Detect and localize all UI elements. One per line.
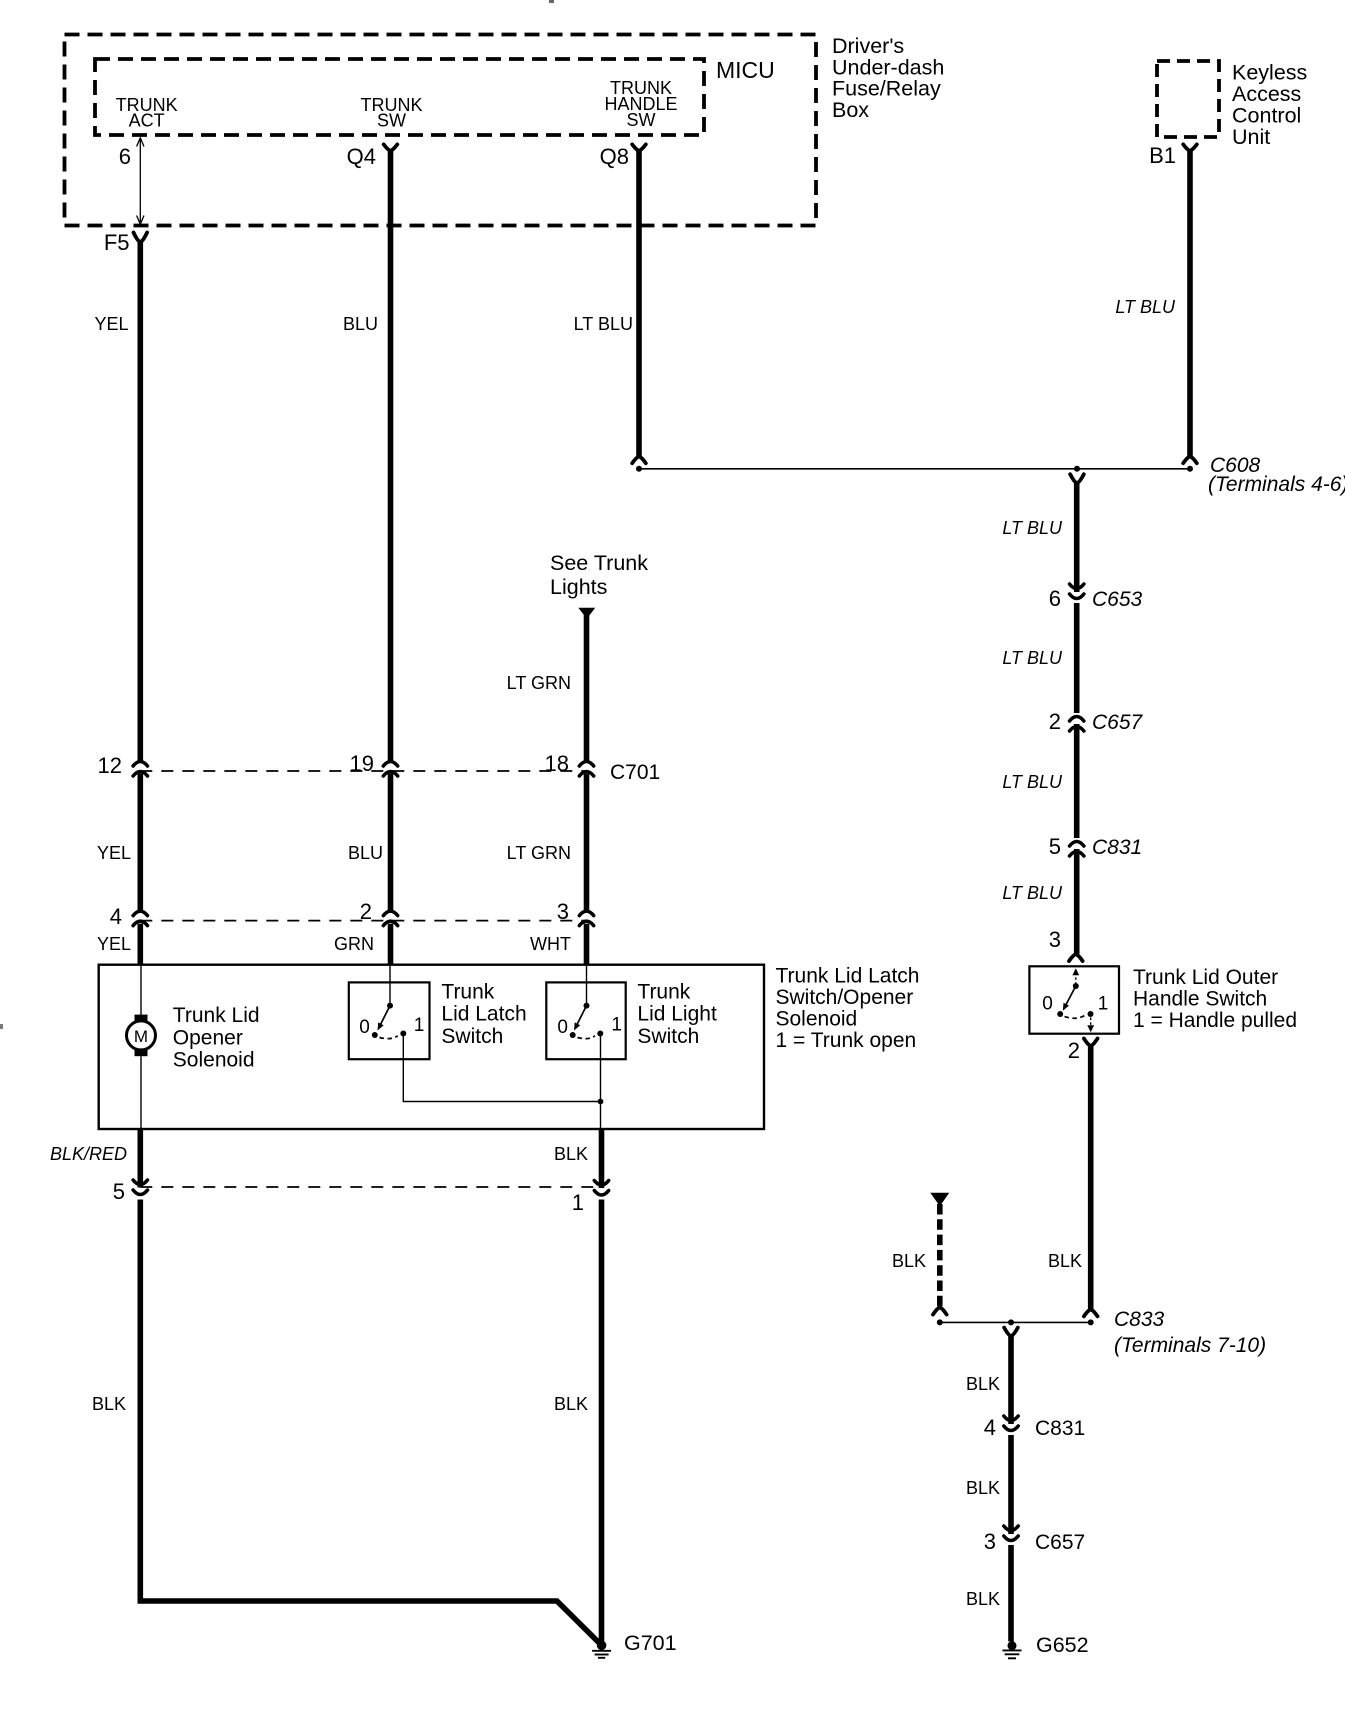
wire LT BLU from B1 xyxy=(1187,151,1193,457)
label Trunk Lid Latch Switch/Opener Solenoid xyxy=(776,965,920,1053)
svg-text:1: 1 xyxy=(572,1190,584,1215)
svg-text:0: 0 xyxy=(557,1017,568,1038)
svg-text:G652: G652 xyxy=(1036,1633,1089,1657)
svg-text:LT BLU: LT BLU xyxy=(1002,648,1063,668)
svg-text:GRN: GRN xyxy=(334,934,374,954)
light switch contact 0 xyxy=(570,1032,576,1038)
svg-text:5: 5 xyxy=(1049,834,1061,859)
svg-text:Switch: Switch xyxy=(441,1025,503,1048)
svg-text:C831: C831 xyxy=(1035,1417,1085,1440)
svg-text:Lights: Lights xyxy=(550,575,607,599)
inline connector pin 1 xyxy=(594,1181,608,1196)
svg-text:YEL: YEL xyxy=(97,843,131,863)
junction C833 left xyxy=(937,1319,943,1325)
scan mark top center xyxy=(549,0,554,3)
handle switch contact 0 xyxy=(1057,1011,1063,1017)
latch switch dashed throw xyxy=(380,1036,398,1039)
Driver's Under-dash Fuse/Relay Box (outer dashed box) xyxy=(65,35,817,226)
svg-text:YEL: YEL xyxy=(97,934,131,954)
inline connector pin 4 xyxy=(133,911,147,926)
wire LT BLU C608 to C653 xyxy=(1074,483,1080,592)
ground G652 xyxy=(1003,1641,1022,1658)
wire LT BLU C653 to C657 xyxy=(1074,603,1080,713)
svg-text:4: 4 xyxy=(110,904,122,929)
svg-text:Trunk: Trunk xyxy=(637,980,690,1003)
svg-text:3: 3 xyxy=(557,899,569,924)
connector dashed line row 5/1 xyxy=(140,1186,601,1188)
svg-text:BLK: BLK xyxy=(554,1144,588,1164)
connector fork Q8 wire end at C608 xyxy=(632,457,646,464)
connector fork C833 branch xyxy=(1004,1328,1018,1336)
inline connector C701 pin 12 xyxy=(133,762,147,777)
svg-text:6: 6 xyxy=(1049,586,1061,611)
connector C701 dashed line xyxy=(140,770,586,772)
inline connector C657 pin 3 xyxy=(1004,1526,1018,1541)
svg-text:MICU: MICU xyxy=(716,57,775,83)
svg-text:YEL: YEL xyxy=(94,314,128,334)
wire LT GRN below C701 xyxy=(584,774,590,913)
svg-text:Q4: Q4 xyxy=(347,144,376,169)
wire BLK below light switch xyxy=(599,1129,605,1188)
latch switch contact 0 xyxy=(372,1032,378,1038)
label Driver's Under-dash Fuse/Relay Box xyxy=(832,34,944,122)
wire BLK C831 to C657 xyxy=(1008,1435,1014,1534)
svg-text:Trunk Lid Latch: Trunk Lid Latch xyxy=(776,965,920,988)
Trunk Lid Outer Handle Switch box xyxy=(1029,966,1119,1033)
MICU inner dashed box xyxy=(95,59,704,135)
label Trunk Lid Light Switch xyxy=(637,980,717,1048)
wire BLK handle switch to C833 xyxy=(1088,1046,1094,1310)
svg-text:BLK: BLK xyxy=(966,1374,1000,1394)
svg-text:Opener: Opener xyxy=(173,1026,243,1049)
inline connector pin 5 xyxy=(133,1180,147,1195)
connector fork B1 wire end at C608 xyxy=(1183,457,1197,464)
handle switch dashed throw to contact 1 xyxy=(1065,1016,1085,1019)
svg-text:2: 2 xyxy=(360,899,372,924)
junction at C608 left xyxy=(636,466,642,472)
handle switch moving arm xyxy=(1065,986,1076,1008)
latch switch contact 1 xyxy=(400,1031,406,1037)
connector fork stub at C833 xyxy=(933,1308,947,1315)
svg-text:0: 0 xyxy=(1042,994,1053,1015)
label See Trunk Lights xyxy=(550,551,648,599)
Trunk Lid Latch Switch box xyxy=(349,982,430,1059)
Trunk Lid Latch Switch / Opener Solenoid component box xyxy=(99,965,764,1129)
ground G701 xyxy=(592,1641,611,1658)
svg-text:Lid Latch: Lid Latch xyxy=(441,1003,526,1026)
svg-text:3: 3 xyxy=(1049,927,1061,952)
junction C833 right xyxy=(1088,1319,1094,1325)
svg-text:C831: C831 xyxy=(1092,836,1142,859)
svg-text:Box: Box xyxy=(832,98,869,122)
svg-text:Switch/Opener: Switch/Opener xyxy=(776,986,914,1009)
wire BLK dashed stub xyxy=(937,1204,943,1308)
svg-text:12: 12 xyxy=(98,753,122,778)
svg-text:LT GRN: LT GRN xyxy=(507,673,571,693)
label Trunk Lid Latch Switch xyxy=(441,980,526,1048)
svg-text:BLU: BLU xyxy=(343,314,378,334)
light switch moving arm xyxy=(576,1006,587,1027)
handle switch contact 1 to pin 2 (dotted arrow down) xyxy=(1090,1018,1092,1026)
inline connector pin 2 xyxy=(383,911,397,926)
junction C833 branch xyxy=(1008,1319,1014,1325)
svg-text:BLK: BLK xyxy=(1048,1251,1082,1271)
svg-text:SW: SW xyxy=(377,111,406,131)
svg-text:4: 4 xyxy=(984,1415,996,1440)
solenoid motor M internal lead upper xyxy=(140,966,142,1015)
connector fork F5 xyxy=(134,233,148,243)
svg-text:Trunk Lid Outer: Trunk Lid Outer xyxy=(1133,966,1278,989)
svg-text:See Trunk: See Trunk xyxy=(550,551,648,575)
arrow from body ground harness xyxy=(930,1193,949,1206)
handle switch contact arm to pin 3 (dotted arrow up) xyxy=(1075,973,1077,984)
svg-text:WHT: WHT xyxy=(530,934,571,954)
light switch contact 1 xyxy=(597,1031,603,1037)
latch switch output lead to junction xyxy=(403,1036,600,1102)
wire WHT into component xyxy=(584,924,590,965)
svg-text:BLK/RED: BLK/RED xyxy=(50,1144,127,1164)
svg-text:C653: C653 xyxy=(1092,588,1143,611)
svg-text:Solenoid: Solenoid xyxy=(173,1049,255,1072)
svg-text:19: 19 xyxy=(350,751,374,776)
svg-text:Trunk: Trunk xyxy=(441,980,494,1003)
svg-text:2: 2 xyxy=(1068,1038,1080,1063)
svg-text:SW: SW xyxy=(627,110,656,130)
light switch dashed throw xyxy=(578,1036,595,1039)
svg-text:BLK: BLK xyxy=(966,1589,1000,1609)
label Keyless Access Control Unit xyxy=(1232,61,1307,150)
connector fork Q8 xyxy=(632,144,646,150)
svg-text:Q8: Q8 xyxy=(600,144,629,169)
wire C608 bus line xyxy=(639,468,1190,470)
wire BLK light switch return to G701 xyxy=(599,1200,605,1642)
wire LT BLU C831 to handle switch xyxy=(1074,849,1080,954)
Trunk Lid Light Switch box xyxy=(546,982,625,1059)
svg-text:Trunk Lid: Trunk Lid xyxy=(173,1004,260,1027)
scan mark left edge xyxy=(0,1024,3,1029)
connector fork handle switch pin 2 xyxy=(1084,1039,1098,1046)
svg-text:ACT: ACT xyxy=(129,111,165,131)
wire BLK solenoid return to G701 xyxy=(140,1200,601,1646)
svg-text:2: 2 xyxy=(1049,709,1061,734)
wire BLK C833 to C831 xyxy=(1008,1336,1014,1424)
connector fork Q4 xyxy=(384,144,398,150)
wire LT GRN from trunk lights xyxy=(584,612,590,763)
svg-text:C657: C657 xyxy=(1035,1531,1085,1554)
svg-text:LT BLU: LT BLU xyxy=(1002,883,1063,903)
svg-text:BLK: BLK xyxy=(966,1478,1000,1498)
svg-text:C657: C657 xyxy=(1092,711,1144,734)
junction at C608 right xyxy=(1187,466,1193,472)
svg-text:18: 18 xyxy=(545,751,569,776)
svg-text:1: 1 xyxy=(611,1015,622,1036)
arrow from trunk lights xyxy=(578,608,595,619)
svg-text:(Terminals 4-6): (Terminals 4-6) xyxy=(1208,473,1345,496)
inline connector C831 pin 5 xyxy=(1070,842,1084,857)
wire BLK/RED below solenoid xyxy=(138,1129,144,1188)
svg-text:5: 5 xyxy=(113,1179,125,1204)
wire LT BLU from Q8 xyxy=(636,151,642,457)
light switch output lead xyxy=(600,1036,602,1129)
connector fork C608 branch xyxy=(1070,474,1084,483)
svg-text:C833: C833 xyxy=(1114,1308,1165,1331)
wire BLK C657 to G652 xyxy=(1008,1545,1014,1642)
svg-text:1: 1 xyxy=(414,1015,425,1036)
wire YEL into component xyxy=(138,924,144,965)
wire BLU from Q4 xyxy=(388,151,394,763)
connector fork B1 xyxy=(1183,144,1197,150)
wire C833 bus line xyxy=(940,1321,1091,1323)
svg-text:BLK: BLK xyxy=(892,1251,926,1271)
svg-text:(Terminals 7-10): (Terminals 7-10) xyxy=(1114,1334,1266,1357)
inline connector pin 3 xyxy=(579,911,593,926)
junction C608 branch xyxy=(1074,466,1080,472)
svg-text:Switch: Switch xyxy=(637,1025,699,1048)
svg-text:0: 0 xyxy=(359,1017,370,1038)
svg-text:1 = Trunk open: 1 = Trunk open xyxy=(776,1029,917,1052)
svg-text:BLK: BLK xyxy=(554,1394,588,1414)
internal link arrow pin 6 to F5 xyxy=(137,138,144,224)
component connector dashed line xyxy=(140,920,586,922)
inline connector C701 pin 18 xyxy=(579,762,593,777)
svg-text:B1: B1 xyxy=(1149,143,1176,168)
inline connector C657 pin 2 xyxy=(1070,717,1084,732)
trunk lid opener solenoid motor xyxy=(127,1015,156,1057)
solenoid motor internal lead lower xyxy=(140,1056,142,1129)
svg-text:G701: G701 xyxy=(624,1631,677,1655)
inline connector C831 pin 4 xyxy=(1004,1416,1018,1431)
handle switch common pivot xyxy=(1073,983,1079,989)
label Trunk Lid Opener Solenoid xyxy=(173,1004,260,1072)
svg-text:BLK: BLK xyxy=(92,1394,126,1414)
wire LT BLU C657 to C831 xyxy=(1074,724,1080,838)
connector fork at C833 right xyxy=(1084,1310,1098,1317)
svg-text:1 = Handle pulled: 1 = Handle pulled xyxy=(1133,1009,1297,1032)
svg-text:Keyless: Keyless xyxy=(1232,61,1307,85)
pin label TRUNK ACT xyxy=(116,95,178,131)
svg-text:6: 6 xyxy=(119,144,131,169)
label Trunk Lid Outer Handle Switch xyxy=(1133,966,1297,1032)
light switch internal lead xyxy=(586,966,588,1006)
wire YEL below C701 xyxy=(138,774,144,913)
pin label TRUNK SW xyxy=(361,95,423,131)
svg-text:F5: F5 xyxy=(104,230,130,255)
svg-text:3: 3 xyxy=(984,1529,996,1554)
Keyless Access Control Unit dashed box xyxy=(1157,61,1219,137)
svg-text:Access: Access xyxy=(1232,82,1301,106)
svg-text:LT BLU: LT BLU xyxy=(1115,297,1176,317)
wire YEL from F5 xyxy=(138,242,144,763)
svg-text:LT BLU: LT BLU xyxy=(1002,772,1063,792)
latch switch common pivot xyxy=(387,1003,393,1009)
svg-text:M: M xyxy=(134,1027,148,1046)
light switch common pivot xyxy=(584,1003,590,1009)
handle switch contact 1 xyxy=(1088,1011,1094,1017)
svg-text:BLU: BLU xyxy=(348,843,383,863)
wire BLU below C701 xyxy=(388,774,394,913)
svg-text:Solenoid: Solenoid xyxy=(776,1008,858,1031)
svg-text:Control: Control xyxy=(1232,104,1301,128)
latch switch internal lead xyxy=(389,966,391,1006)
svg-text:LT BLU: LT BLU xyxy=(574,314,633,334)
svg-text:LT GRN: LT GRN xyxy=(507,843,571,863)
svg-text:Handle Switch: Handle Switch xyxy=(1133,988,1267,1011)
svg-text:C701: C701 xyxy=(610,761,660,784)
pin label TRUNK HANDLE SW xyxy=(604,78,677,130)
junction latch/light switch leads xyxy=(598,1099,604,1105)
connector fork handle switch pin 3 xyxy=(1069,954,1083,961)
inline connector C701 pin 19 xyxy=(383,762,397,777)
svg-text:Unit: Unit xyxy=(1232,125,1270,149)
wire GRN into component xyxy=(388,924,394,965)
svg-text:LT BLU: LT BLU xyxy=(1002,518,1063,538)
inline connector C653 pin 6 xyxy=(1070,584,1084,599)
svg-text:Lid Light: Lid Light xyxy=(637,1003,717,1026)
svg-text:1: 1 xyxy=(1098,994,1109,1015)
latch switch moving arm xyxy=(380,1006,391,1027)
